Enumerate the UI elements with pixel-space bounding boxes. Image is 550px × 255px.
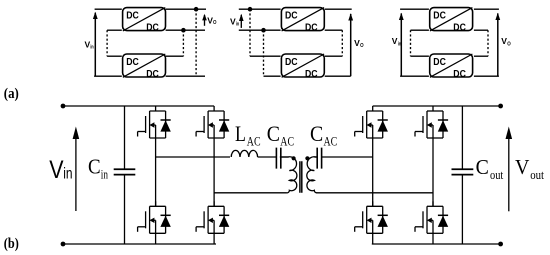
wire: block1 lower input stub bbox=[411, 29, 429, 31]
wire: block2 upper output stub bbox=[474, 55, 488, 57]
node: junction dot top output bbox=[194, 7, 199, 12]
wire: S8 source to bottom rail bbox=[432, 233, 434, 244]
wire: top input stub bbox=[239, 8, 281, 10]
wire: S3 source to bottom rail bbox=[155, 233, 157, 244]
converter block DC/DC a1-bottom bbox=[123, 54, 166, 80]
wire: block2 top output bbox=[325, 55, 343, 57]
node: junction dot lower input bbox=[261, 28, 266, 33]
svg-text:AC: AC bbox=[324, 134, 338, 148]
wire: leg2 mid section bbox=[213, 138, 215, 206]
wire: block1 top output bbox=[325, 8, 352, 10]
wire: bottom input rail bbox=[400, 75, 429, 77]
svg-text:in: in bbox=[398, 41, 402, 47]
svg-text:L: L bbox=[235, 121, 246, 146]
wire: lower input stub bbox=[239, 29, 281, 31]
transformer secondary winding bbox=[307, 157, 317, 193]
wire: top input rail bbox=[95, 8, 122, 10]
wire: node A (leg1 mid to inductor) bbox=[156, 156, 230, 158]
capacitor Cout bottom lead bbox=[461, 175, 463, 244]
svg-text:O: O bbox=[507, 41, 511, 47]
svg-text:O: O bbox=[213, 20, 217, 26]
wire: C_AC1 to transformer primary bbox=[281, 156, 289, 158]
capacitor Cout plates bbox=[452, 169, 474, 174]
converter block DC/DC a2-bottom bbox=[281, 54, 324, 80]
wire: bottom rail left bridge bbox=[63, 243, 216, 245]
svg-text:in: in bbox=[90, 45, 94, 51]
node: input - terminal dot bbox=[61, 242, 66, 247]
label Vin (a2) bbox=[230, 16, 240, 27]
wire: bottom rail right bridge bbox=[372, 243, 501, 245]
capacitor Cin top lead bbox=[124, 106, 126, 169]
V_O measurement arrow (a3 right rail) bbox=[495, 13, 500, 76]
node: output + terminal dot bbox=[498, 104, 503, 109]
transistor S2 (left bridge, leg2 top) bbox=[196, 106, 229, 138]
transistor S7 (right bridge, leg3 bottom) bbox=[355, 201, 388, 233]
transformer primary winding bbox=[280, 157, 297, 193]
inductor L_AC bbox=[231, 150, 257, 157]
svg-text:V: V bbox=[49, 156, 63, 184]
capacitor C_AC1 plates bbox=[276, 148, 280, 169]
svg-text:out: out bbox=[530, 167, 544, 182]
V_O measurement arrow bbox=[202, 14, 207, 26]
wire: leg3 mid section bbox=[372, 138, 374, 206]
label C_AC (left) bbox=[267, 121, 294, 148]
wire: dashed series link (inputs) bbox=[410, 30, 412, 56]
node: junction dot top input bbox=[248, 7, 253, 12]
wire: top rail left bridge bbox=[63, 105, 214, 107]
label V_out bbox=[515, 155, 544, 182]
transformer polarity dot secondary bbox=[305, 156, 309, 160]
label C_out bbox=[476, 155, 504, 182]
wire: dashed series link (inputs) bbox=[106, 30, 108, 56]
label C_in bbox=[88, 155, 108, 182]
wire: node B (leg2 mid to transformer primary bottom) bbox=[214, 192, 287, 194]
wire: dashed parallel link (outer) bbox=[195, 9, 197, 76]
wire: block2 upper input stub bbox=[411, 55, 429, 57]
label Vo (a1) bbox=[207, 15, 217, 26]
wire: block1 top output bbox=[474, 8, 499, 10]
wire: block1 bottom output stub bbox=[474, 29, 488, 31]
node: junction dot lower output bbox=[181, 28, 186, 33]
wire: block2 lower input stub bbox=[264, 75, 281, 77]
wire: block1 bottom output bbox=[325, 29, 343, 31]
wire: dashed parallel link (outer input) bbox=[249, 9, 251, 56]
label L_AC bbox=[235, 121, 261, 148]
transistor S1 (left bridge, leg1 top) bbox=[138, 106, 171, 138]
capacitor C_AC2 plates bbox=[317, 148, 321, 169]
converter block DC/DC a3-top bbox=[430, 8, 473, 34]
wire: dashed series link (outputs) bbox=[341, 30, 343, 56]
transistor S8 (right bridge, leg4 bottom) bbox=[415, 201, 448, 233]
wire: S4 source to bottom rail bbox=[213, 233, 215, 244]
svg-text:V: V bbox=[515, 155, 530, 179]
svg-text:AC: AC bbox=[280, 134, 294, 148]
wire: leg4 mid section bbox=[432, 138, 434, 206]
wire: S7 source to bottom rail bbox=[372, 233, 374, 244]
label Vo (a3) bbox=[501, 36, 511, 47]
wire: bottom input rail bbox=[94, 75, 122, 77]
transformer polarity dot primary bbox=[292, 156, 296, 160]
V_out arrow bbox=[506, 127, 513, 212]
V_in measurement arrow (a2) bbox=[239, 14, 244, 28]
converter block DC/DC a1-top bbox=[123, 8, 166, 34]
svg-text:C: C bbox=[88, 155, 101, 179]
wire: leg1 mid section bbox=[155, 138, 157, 206]
wire: block1 top output bbox=[166, 8, 206, 10]
transistor S4 (left bridge, leg2 bottom) bbox=[196, 201, 229, 233]
transistor S3 (left bridge, leg1 bottom) bbox=[138, 201, 171, 233]
wire: top rail right bridge bbox=[373, 105, 501, 107]
transformer core bbox=[300, 161, 302, 192]
svg-text:(b): (b) bbox=[4, 236, 19, 252]
label V_in bbox=[49, 156, 72, 184]
wire: block2 bottom output bbox=[325, 75, 351, 77]
wire: block2 upper input stub bbox=[250, 55, 281, 57]
svg-text:in: in bbox=[236, 22, 240, 28]
wire: bottom output rail bbox=[474, 75, 499, 77]
wire: C_AC2 to right bridge leg3 mid bbox=[322, 156, 373, 158]
V_in arrow bbox=[73, 127, 80, 212]
node: output - terminal dot bbox=[498, 242, 503, 247]
svg-text:in: in bbox=[63, 165, 72, 182]
wire: block2 upper input stub bbox=[107, 55, 122, 57]
converter block DC/DC a2-top bbox=[281, 8, 324, 34]
wire: block2 top output bbox=[166, 55, 184, 57]
capacitor Cout top lead bbox=[461, 106, 463, 169]
svg-text:C: C bbox=[310, 121, 323, 146]
V_O measurement arrow (a2 right rail) bbox=[348, 13, 353, 76]
wire: block2 bottom output bbox=[166, 75, 205, 77]
wire: top input rail bbox=[400, 8, 429, 10]
wire: secondary top to C_AC2 bbox=[314, 156, 317, 158]
V_in measurement arrow (left rail) bbox=[93, 12, 98, 77]
wire: block1 bottom output bbox=[166, 29, 205, 31]
label C_AC (right) bbox=[310, 121, 337, 148]
svg-text:C: C bbox=[476, 155, 489, 179]
V_in measurement arrow (a3 left rail) bbox=[399, 13, 404, 76]
capacitor Cin plates bbox=[114, 169, 136, 174]
converter block DC/DC a3-bottom bbox=[430, 54, 473, 80]
wire: dashed parallel link (inner) bbox=[182, 30, 184, 56]
svg-text:O: O bbox=[360, 43, 364, 49]
label Vo (a2) bbox=[354, 38, 364, 49]
wire: block1 lower input stub bbox=[107, 29, 122, 31]
svg-text:AC: AC bbox=[247, 134, 261, 148]
transistor S5 (right bridge, leg3 top) bbox=[355, 106, 388, 138]
svg-text:out: out bbox=[490, 167, 504, 182]
wire: dashed series link (outputs) bbox=[487, 30, 489, 56]
svg-text:(a): (a) bbox=[4, 86, 19, 102]
svg-text:in: in bbox=[101, 166, 109, 181]
capacitor Cin bottom lead bbox=[124, 175, 126, 244]
wire: inductor to capacitor C_AC1 bbox=[258, 156, 277, 158]
wire: dashed parallel link (inner input) bbox=[263, 30, 265, 76]
transistor S6 (right bridge, leg4 top) bbox=[415, 106, 448, 138]
node: input + terminal dot bbox=[61, 104, 66, 109]
svg-text:C: C bbox=[267, 121, 280, 146]
label Vin (a3) bbox=[392, 36, 402, 47]
wire: secondary bottom to leg4 mid bbox=[316, 192, 433, 194]
label Vin (a1) bbox=[85, 39, 95, 50]
